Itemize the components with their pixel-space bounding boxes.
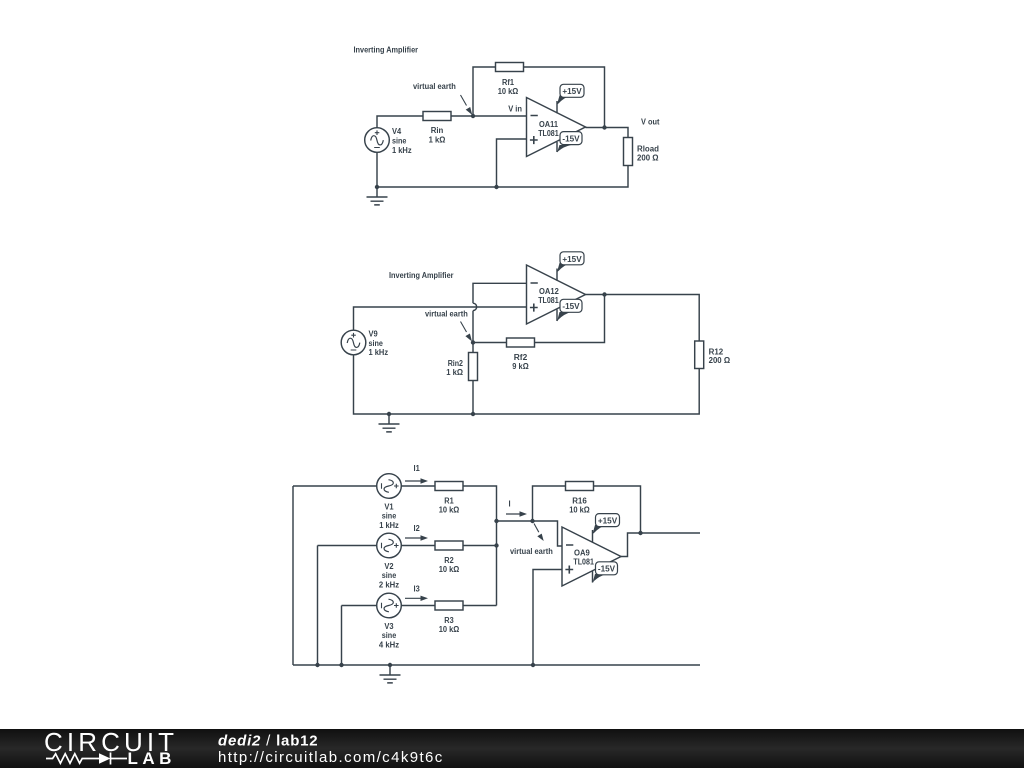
svg-text:dedi2 / lab12: dedi2 / lab12 [218, 733, 318, 750]
svg-text:I3: I3 [414, 584, 420, 594]
svg-text:TL081: TL081 [538, 128, 559, 138]
svg-text:200 Ω: 200 Ω [709, 355, 731, 365]
svg-text:TL081: TL081 [573, 557, 594, 567]
svg-text:Inverting Amplifier: Inverting Amplifier [389, 270, 454, 280]
svg-text:10 kΩ: 10 kΩ [439, 624, 460, 634]
svg-text:+15V: +15V [562, 86, 582, 96]
svg-text:1 kHz: 1 kHz [392, 145, 412, 155]
svg-text:1 kΩ: 1 kΩ [446, 367, 463, 377]
svg-text:10 kΩ: 10 kΩ [498, 86, 519, 96]
svg-text:+15V: +15V [598, 516, 618, 526]
svg-text:LAB: LAB [128, 749, 176, 768]
svg-text:I: I [509, 499, 511, 509]
svg-text:200 Ω: 200 Ω [637, 153, 659, 163]
svg-text:V in: V in [508, 103, 522, 113]
svg-text:-15V: -15V [562, 134, 579, 144]
svg-text:Inverting Amplifier: Inverting Amplifier [354, 45, 419, 55]
svg-text:1 kΩ: 1 kΩ [429, 134, 446, 144]
svg-text:TL081: TL081 [538, 295, 559, 305]
svg-text:virtual earth: virtual earth [413, 81, 456, 91]
svg-text:10 kΩ: 10 kΩ [569, 505, 590, 515]
svg-text:10 kΩ: 10 kΩ [439, 505, 460, 515]
svg-text:1 kHz: 1 kHz [379, 520, 399, 530]
svg-text:I2: I2 [414, 523, 420, 533]
svg-text:1 kHz: 1 kHz [369, 347, 389, 357]
svg-text:2 kHz: 2 kHz [379, 580, 399, 590]
svg-text:-15V: -15V [562, 301, 579, 311]
svg-text:+15V: +15V [562, 254, 582, 264]
svg-text:virtual earth: virtual earth [510, 546, 553, 556]
svg-text:9 kΩ: 9 kΩ [512, 361, 528, 371]
svg-text:virtual earth: virtual earth [425, 309, 468, 319]
svg-text:http://circuitlab.com/c4k9t6c: http://circuitlab.com/c4k9t6c [218, 749, 444, 766]
svg-text:10 kΩ: 10 kΩ [439, 564, 460, 574]
svg-text:I1: I1 [414, 463, 420, 473]
svg-text:-15V: -15V [598, 564, 615, 574]
svg-text:4 kHz: 4 kHz [379, 640, 399, 650]
svg-text:V out: V out [641, 117, 660, 127]
